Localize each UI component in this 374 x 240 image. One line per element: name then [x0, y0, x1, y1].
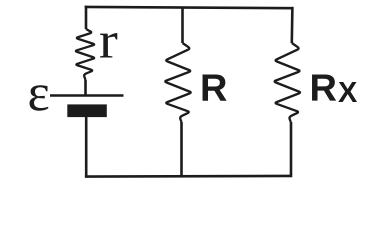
label R: [203, 75, 227, 101]
wire top horizontal from node A to node B: [85, 7, 293, 8]
resistor R: [165, 43, 190, 122]
resistor Rx: [275, 43, 300, 122]
wire left vertical lower segment: [85, 117, 88, 177]
wire left vertical upper segment: [85, 6, 88, 29]
battery EMF source: long plate: [50, 94, 124, 97]
label r (internal resistance): [100, 33, 117, 58]
wire bottom horizontal: [85, 175, 291, 178]
label Rx: [312, 74, 336, 100]
wire left vertical between r and battery: [84, 80, 87, 95]
battery EMF source: short thick plate: [67, 104, 107, 117]
label X subscript of Rx: [338, 82, 357, 102]
label epsilon (EMF): [30, 85, 49, 110]
resistor r: [76, 29, 94, 80]
wire right vertical lower segment: [290, 122, 293, 177]
wire middle vertical upper segment: [181, 7, 184, 43]
wire middle vertical lower segment: [180, 122, 183, 176]
wire right vertical upper segment: [290, 7, 293, 43]
